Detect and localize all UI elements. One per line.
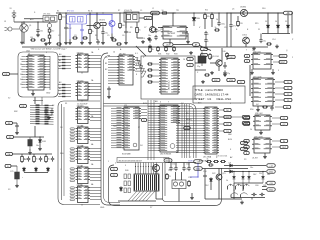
wire drop 268 <box>267 13 269 24</box>
wire q8 top <box>218 169 220 175</box>
svg-text:IFT2 455: IFT2 455 <box>67 11 74 13</box>
IC U14 ROM <box>158 105 180 152</box>
transistor Q10 <box>236 184 242 190</box>
resistor R15 <box>21 155 24 163</box>
IC U3 74LS244 right wires <box>90 84 101 96</box>
capacitor C11 <box>229 23 232 28</box>
resistor R46 <box>40 39 46 41</box>
resistor R16 <box>33 155 36 163</box>
resistor R42 <box>82 37 88 39</box>
svg-text:S1: S1 <box>65 103 67 105</box>
IC U4 74LS373 bypass cap <box>81 125 83 127</box>
wire amp out <box>182 32 188 34</box>
wire diag into module <box>136 46 146 56</box>
svg-text:100u: 100u <box>221 23 225 25</box>
svg-text:AGC: AGC <box>146 17 151 20</box>
svg-text:R31: R31 <box>158 54 161 56</box>
net VID <box>141 119 147 122</box>
wire bus drop v2 <box>164 163 166 196</box>
resistor R4 <box>89 28 92 35</box>
wire rail top-left <box>22 21 56 23</box>
svg-text:1k: 1k <box>152 49 154 51</box>
svg-text:8: 8 <box>136 74 137 76</box>
svg-text:D9: D9 <box>229 169 231 171</box>
junction jt6 <box>173 12 174 13</box>
ground G25 <box>271 71 275 75</box>
svg-text:GND: GND <box>153 13 158 15</box>
svg-text:1k: 1k <box>226 180 228 182</box>
resistor R2 <box>48 34 51 40</box>
net Y3 <box>284 98 292 101</box>
svg-text:GND: GND <box>269 189 274 191</box>
wire af diag <box>200 46 212 51</box>
net MOD <box>164 159 172 162</box>
wire c10 down <box>205 43 207 47</box>
bus U14 stubs <box>148 107 158 151</box>
wire c19b up <box>188 163 190 166</box>
junction j7 <box>172 12 173 13</box>
net ROW1b <box>7 135 14 138</box>
svg-text:1k: 1k <box>215 27 217 29</box>
svg-text:R9: R9 <box>130 27 132 29</box>
edge connector CN1 <box>134 174 159 191</box>
IC U9 ULA <box>159 58 180 94</box>
svg-text:D10: D10 <box>262 8 265 10</box>
wire rail 0V <box>22 46 268 48</box>
junction j9 <box>226 12 227 13</box>
capacitor C5 <box>124 29 127 34</box>
junction j12 <box>39 136 40 137</box>
svg-text:SHEET : 1/1 DELL.USA: SHEET : 1/1 DELL.USA <box>195 97 233 101</box>
svg-text:4M: 4M <box>210 57 213 59</box>
resistor R17 <box>45 155 48 163</box>
svg-text:C61: C61 <box>263 185 266 187</box>
wire battery to rail <box>14 21 22 23</box>
svg-text:R1: R1 <box>57 11 59 13</box>
ground G16b <box>38 147 42 151</box>
svg-text:+: + <box>208 33 209 35</box>
capacitor C3 <box>64 25 67 30</box>
IC U6 74LS138 bypass cap <box>81 165 83 167</box>
svg-text:C5: C5 <box>107 35 109 37</box>
svg-text:Q5: Q5 <box>232 9 234 11</box>
svg-text:U17 LS245: U17 LS245 <box>253 76 262 78</box>
bus center stubs <box>176 109 203 153</box>
svg-text:A4: A4 <box>59 87 61 90</box>
capacitor C4 <box>101 30 104 35</box>
junction j5 <box>119 12 120 13</box>
svg-text:104: 104 <box>128 32 131 34</box>
wire gnd lead <box>168 12 176 14</box>
wire left vert <box>21 22 23 41</box>
wire pr mid rail <box>234 182 263 184</box>
svg-text:1k: 1k <box>48 159 50 161</box>
svg-text:5: 5 <box>186 27 187 29</box>
resistor R24 <box>166 173 169 180</box>
wire c13 down2 <box>29 149 31 151</box>
resistor R30 <box>262 106 268 108</box>
wire g30 wire <box>137 37 143 39</box>
IC U19 LS373 <box>252 138 272 153</box>
U8 left bundle <box>108 57 117 84</box>
svg-text:A2: A2 <box>59 65 61 68</box>
bundle kbd-latch band2 <box>58 85 71 97</box>
junction jt2 <box>89 12 90 13</box>
net J2b <box>244 146 250 149</box>
ground GA <box>47 116 51 120</box>
wire c11 dn <box>230 28 232 47</box>
keyboard matrix rows <box>30 105 54 124</box>
resistor R25 <box>188 180 191 187</box>
svg-text:D0: D0 <box>20 59 22 61</box>
svg-text:2: 2 <box>115 163 116 165</box>
net INT <box>242 115 250 118</box>
LED D22 <box>248 172 251 184</box>
wire ua gnd <box>260 130 262 131</box>
wire u16 w1 <box>273 55 281 57</box>
resistor R3 <box>59 13 62 21</box>
net NMI <box>242 121 250 124</box>
svg-text:A5: A5 <box>59 93 61 96</box>
svg-text:C3: C3 <box>74 35 76 37</box>
svg-text:NMI: NMI <box>228 134 232 136</box>
wire blue video wire h <box>190 176 198 178</box>
wire q5 e <box>218 66 220 69</box>
ground G21 <box>201 80 205 84</box>
svg-text:4xLS244 BUF: 4xLS244 BUF <box>77 104 88 106</box>
battery B1 <box>12 10 16 22</box>
wire pr mid lead2b <box>262 189 267 191</box>
svg-text:C8: C8 <box>160 29 162 31</box>
wire c15 dn <box>108 92 110 95</box>
net GND l <box>194 167 203 170</box>
wire Q1 base wire <box>87 25 94 27</box>
transistor Q9 <box>228 184 234 190</box>
svg-text:R15: R15 <box>255 23 258 25</box>
ground G7 <box>88 41 92 45</box>
ground G10 <box>124 41 128 45</box>
svg-text:C40: C40 <box>222 51 225 53</box>
svg-text:R40: R40 <box>125 170 128 172</box>
IC U13 RAM <box>122 107 141 150</box>
wire R4 up <box>89 13 91 28</box>
ground G15 <box>31 92 35 96</box>
matrix feed wire2 <box>41 97 43 105</box>
LED D23 <box>262 172 265 184</box>
wire mixer down <box>23 32 25 44</box>
wire q3 base down <box>237 16 239 20</box>
svg-text:C1815: C1815 <box>242 35 247 37</box>
wire R2 down <box>49 40 51 41</box>
svg-text:U19 LS373: U19 LS373 <box>254 136 263 138</box>
ground G26 <box>256 108 260 112</box>
ground G17 <box>15 184 19 188</box>
net KB left <box>3 72 10 75</box>
resistor R27 <box>213 160 219 162</box>
wire drop a3 <box>233 190 235 200</box>
wire r15 up <box>21 154 23 155</box>
transistor Q8 <box>216 174 222 180</box>
svg-text:CLK2: CLK2 <box>228 57 234 59</box>
capacitor C10 <box>204 38 207 43</box>
svg-text:MIC: MIC <box>214 80 218 82</box>
svg-text:A15: A15 <box>198 102 201 105</box>
cluster A caps <box>44 108 53 115</box>
svg-text:4148: 4148 <box>42 141 46 143</box>
U13 left pin labels <box>117 108 122 147</box>
wire pr bottom drop <box>251 198 253 200</box>
LED D20 <box>233 172 236 184</box>
svg-text:VIDEO: VIDEO <box>188 161 194 163</box>
wire C4 up <box>102 27 104 30</box>
wire zener bus <box>262 33 290 35</box>
svg-text:47u: 47u <box>233 25 236 27</box>
zener D2 <box>267 24 270 29</box>
net KA3 <box>280 116 288 119</box>
resistor R29 <box>208 164 214 166</box>
ground G32 <box>148 45 152 49</box>
junction jt3 <box>102 12 103 13</box>
svg-text:W: W <box>138 127 140 129</box>
wire C1 up <box>37 22 39 28</box>
net J1b <box>244 140 250 143</box>
svg-text:10n: 10n <box>40 30 43 32</box>
net O2 <box>279 60 287 63</box>
wire q3 out <box>248 12 284 14</box>
net ROW1 <box>6 121 13 124</box>
IC U5 74LS374 right wires <box>90 129 101 141</box>
ground GB <box>15 131 19 135</box>
resistor R18d <box>147 75 153 77</box>
net Y0 <box>284 80 292 83</box>
svg-text:GND: GND <box>196 168 201 170</box>
wire r4 down <box>89 35 91 41</box>
resistor R45 <box>30 39 36 41</box>
junction jt1 <box>59 12 60 13</box>
IC U1 keyboard encoder <box>26 55 46 90</box>
net CH2 <box>227 78 236 81</box>
wire row3 wire <box>14 136 45 138</box>
svg-text:Q20: Q20 <box>155 173 159 175</box>
svg-text:1k: 1k <box>207 159 209 161</box>
svg-text:R4 1k: R4 1k <box>88 11 93 13</box>
wire c17 up <box>170 163 172 166</box>
net P2 <box>111 173 118 176</box>
junction blue video dot2 <box>197 176 198 177</box>
wire Y2 lead <box>275 93 284 95</box>
ground G28 <box>223 73 227 77</box>
AGC box <box>124 12 139 22</box>
svg-text:16: 16 <box>183 59 185 61</box>
IC U8 74LS08 bypass cap <box>81 204 83 206</box>
wire C3 up <box>65 13 67 25</box>
bus U13 right <box>141 110 147 116</box>
svg-text:470k 4.7M: 470k 4.7M <box>124 10 132 12</box>
wire blue wire T1 right down <box>81 24 83 27</box>
wire c18 up <box>175 163 177 166</box>
IC U7 74LS32 left ovals <box>70 168 75 182</box>
diode D17 <box>228 170 233 173</box>
main board frame right top <box>188 104 196 159</box>
net XTAL1 <box>201 47 208 50</box>
svg-text:D4: D4 <box>20 79 22 81</box>
wire blue video wire v <box>197 164 199 178</box>
ground G14 <box>275 45 279 49</box>
resistor R1 <box>48 28 51 34</box>
wire r17 up <box>45 154 47 155</box>
wire d10 down <box>39 144 41 147</box>
svg-text:4: 4 <box>136 64 137 66</box>
svg-text:D7: D7 <box>181 103 183 105</box>
svg-text:10: 10 <box>162 10 164 12</box>
wire c11 up <box>230 13 232 23</box>
wire kbd bus right <box>49 56 51 90</box>
wire k1 lead <box>272 140 280 142</box>
svg-text:2: 2 <box>136 59 137 61</box>
wire q5 c <box>226 58 228 60</box>
svg-text:1k: 1k <box>250 129 252 131</box>
ground G27 <box>263 155 267 159</box>
net K1 <box>280 139 288 142</box>
wire c33 up <box>16 122 18 124</box>
wire c4 down <box>102 35 104 41</box>
junction jt8 <box>211 12 212 13</box>
svg-text:100k: 100k <box>62 17 66 19</box>
resistor R13 <box>266 43 272 45</box>
ground G5 <box>68 41 72 45</box>
svg-text:CN2: CN2 <box>26 51 30 53</box>
ground G22 <box>190 196 194 200</box>
diode D11 <box>23 167 26 172</box>
resistor R5 <box>119 22 122 29</box>
ground G30 <box>141 40 145 44</box>
svg-text:CF1 455k: CF1 455k <box>43 14 50 16</box>
net D3 <box>224 129 232 132</box>
diode D12 <box>35 167 38 172</box>
svg-text:560: 560 <box>122 25 125 27</box>
wire Y1 lead <box>275 87 284 89</box>
wire r9 down <box>204 20 206 29</box>
capacitor C41 <box>96 39 99 44</box>
svg-text:74LS08: 74LS08 <box>77 184 83 186</box>
wire r44 dn <box>136 34 138 38</box>
IC U8 74LS08 left ovals <box>70 187 75 201</box>
svg-text:1: 1 <box>108 161 109 163</box>
wire Q1 collector <box>96 13 98 22</box>
net IF <box>100 22 107 25</box>
wire cf1 left lead <box>24 18 43 20</box>
capacitor C14 (electrolytic) <box>15 166 20 184</box>
svg-text:A0: A0 <box>59 53 61 56</box>
svg-text:0: 0 <box>160 102 161 104</box>
svg-text:BQ: BQ <box>243 149 246 151</box>
IC U6 74LS138 <box>76 147 91 164</box>
bundle kbd-latch band2 labels <box>62 84 65 97</box>
svg-text:MREQ: MREQ <box>186 119 192 121</box>
net GNDR <box>267 170 276 173</box>
staircase bus U8 <box>135 58 146 77</box>
ground G13 <box>252 47 256 51</box>
resistor R21b <box>173 46 176 52</box>
svg-text:5: 5 <box>278 70 279 72</box>
wire pr mid lead <box>265 182 267 184</box>
wire c19 up <box>183 163 185 166</box>
net D1 <box>224 115 232 118</box>
wire q4 down <box>245 44 247 47</box>
wire rail drop x60 <box>59 21 61 47</box>
svg-text:R60: R60 <box>60 153 63 155</box>
wire c8 up <box>218 13 220 21</box>
svg-text:10u: 10u <box>148 35 151 37</box>
IC U7 74LS32 bypass cap <box>81 185 83 187</box>
wire mod box up2 <box>181 172 183 180</box>
svg-text:7: 7 <box>246 50 247 52</box>
svg-text:C9: C9 <box>140 10 142 12</box>
svg-text:D5: D5 <box>20 84 22 86</box>
svg-text:22p: 22p <box>227 73 230 75</box>
svg-text:A0 A1 A2 A3 A4 A5 A6 A7: A0 A1 A2 A3 A4 A5 A6 A7 <box>119 159 143 162</box>
diode D16 <box>228 164 233 167</box>
connector wires up <box>136 163 157 175</box>
wire Y3 lead <box>275 99 284 101</box>
svg-text:GND: GND <box>269 171 274 173</box>
svg-text:Q21: Q21 <box>222 173 226 175</box>
junction j3 <box>65 12 66 13</box>
wire matrix drop <box>34 126 36 137</box>
IC U3 74LS244 <box>76 82 91 100</box>
svg-text:R33: R33 <box>174 54 177 56</box>
svg-text:2: 2 <box>292 57 293 59</box>
diode D14 <box>120 186 123 191</box>
net P1 <box>111 167 118 170</box>
svg-text:R12: R12 <box>205 10 208 12</box>
svg-text:A3: A3 <box>59 81 61 84</box>
wire kb left wire <box>10 73 19 75</box>
ground G20 <box>210 71 214 75</box>
wire u17 feed <box>249 65 251 96</box>
svg-text:10k: 10k <box>207 16 210 18</box>
net AF <box>193 43 200 47</box>
wire ka3 lead <box>272 117 280 119</box>
net ROW2 <box>6 152 13 155</box>
matrix link <box>33 100 43 102</box>
wire u18 gnd <box>264 153 266 155</box>
IC U8 74LS08 <box>76 186 91 203</box>
wire pr v1 <box>233 183 235 191</box>
keyboard board frame <box>18 52 58 97</box>
svg-text:B2: B2 <box>105 69 107 71</box>
svg-text:J3: J3 <box>4 21 6 23</box>
transistor Q1b <box>94 22 100 28</box>
latch bus line <box>61 104 63 200</box>
resistor R18b <box>147 63 153 65</box>
svg-text:1N60: 1N60 <box>196 18 200 20</box>
net D2 <box>224 122 232 125</box>
wire q5 base <box>210 62 216 64</box>
svg-text:TITLE : micro PC800: TITLE : micro PC800 <box>195 88 224 92</box>
svg-text:P3: P3 <box>244 159 246 161</box>
svg-text:R8: R8 <box>95 35 97 37</box>
IC U2 74LS157 right wires <box>90 56 101 68</box>
wire c33 dn <box>16 129 18 131</box>
IC U2 74LS157 <box>76 54 91 72</box>
capacitor C19b <box>187 166 190 171</box>
svg-text:TP1: TP1 <box>176 10 179 12</box>
svg-text:MOD: MOD <box>166 160 171 162</box>
capacitor C7 <box>154 35 157 40</box>
ground G19 <box>189 51 193 55</box>
amplifier U10 <box>161 26 188 39</box>
